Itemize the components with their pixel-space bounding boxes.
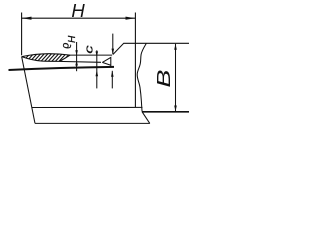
svg-text:Нд: Нд xyxy=(60,35,76,48)
wire: left slanted plate edge xyxy=(22,57,35,124)
node: plate edge triangle xyxy=(102,57,111,67)
node: Hd down arrow xyxy=(75,50,78,55)
node: arrow down at line end xyxy=(112,49,115,55)
node: dimension B shaft xyxy=(175,44,177,112)
svg-text:H: H xyxy=(71,0,85,21)
wire: upper thin line from bead to arrow xyxy=(70,54,112,56)
node: arrow left of H xyxy=(22,17,32,20)
svg-text:c: c xyxy=(82,45,95,53)
node: label Hd rotated xyxy=(60,35,76,48)
svg-text:B: B xyxy=(153,70,173,88)
node: unlabeled dimension lower segment xyxy=(111,71,113,89)
wire: bottom edge of right part xyxy=(142,111,189,113)
wire: dimension line H xyxy=(22,17,136,19)
wire: lower horizontal line 2 xyxy=(35,122,150,124)
node: c up arrow xyxy=(96,70,99,76)
node: Hd up arrow xyxy=(75,60,78,65)
node: break S-curve xyxy=(137,43,146,111)
node: B bottom arrow xyxy=(174,106,177,112)
node: arrow up lower xyxy=(111,71,114,77)
node: dimension c shaft xyxy=(96,50,98,88)
wire: right vertical edge line xyxy=(134,13,136,108)
wire: left extension line xyxy=(21,13,23,56)
node: hatching of bead xyxy=(17,53,74,64)
wire: diagonal to lower line xyxy=(142,112,150,124)
node: thick sloped line (board) xyxy=(9,67,115,70)
node: B top arrow xyxy=(174,44,177,50)
wire: lower horizontal line 1 xyxy=(32,106,143,108)
node: dimension Hd shaft xyxy=(76,42,78,71)
node: arrow right of H xyxy=(126,17,136,20)
node: c down arrow xyxy=(96,51,99,56)
node: unlabeled dimension upper segment xyxy=(112,34,114,55)
wire: diagonal up to right top edge xyxy=(113,43,189,54)
